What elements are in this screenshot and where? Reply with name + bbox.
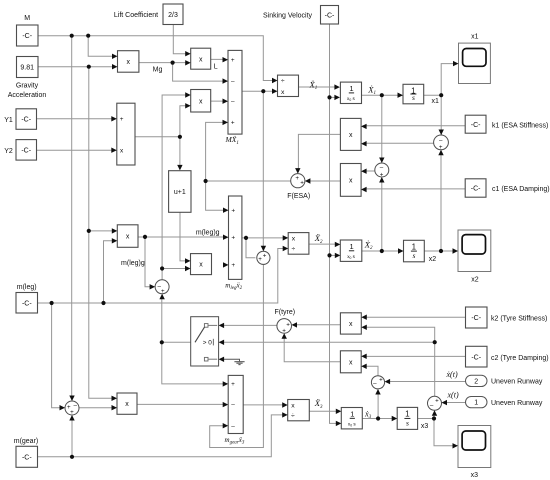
svg-text:F(tyre): F(tyre) <box>274 309 295 316</box>
svg-text:x: x <box>349 359 353 366</box>
svg-text:k1 (ESA Stiffness): k1 (ESA Stiffness) <box>492 122 548 129</box>
svg-text:-C-: -C- <box>471 186 481 193</box>
svg-text:s: s <box>412 251 415 260</box>
svg-text:x3: x3 <box>421 423 429 430</box>
svg-text:1: 1 <box>350 242 354 251</box>
svg-text:+: + <box>231 120 235 127</box>
svg-text:s: s <box>406 419 409 428</box>
svg-text:-C-: -C- <box>22 454 32 461</box>
svg-text:1: 1 <box>350 410 354 419</box>
svg-text:Y2: Y2 <box>4 148 13 155</box>
svg-text:–: – <box>373 380 377 387</box>
svg-text:–: – <box>430 403 434 410</box>
svg-text:-C-: -C- <box>471 354 481 361</box>
svg-text:-C-: -C- <box>21 147 31 154</box>
svg-text:Sinking Velocity: Sinking Velocity <box>263 12 313 19</box>
svg-text:x: x <box>292 235 296 242</box>
svg-text:9.81: 9.81 <box>20 65 34 72</box>
svg-text:-C-: -C- <box>22 33 32 40</box>
svg-text:+: + <box>300 180 304 187</box>
svg-text:m(gear): m(gear) <box>14 438 39 445</box>
svg-text:x: x <box>291 403 295 410</box>
svg-text:+: + <box>435 398 439 405</box>
svg-text:÷: ÷ <box>291 413 295 420</box>
svg-text:c1 (ESA Damping): c1 (ESA Damping) <box>492 186 550 193</box>
svg-text:1: 1 <box>405 410 410 419</box>
svg-text:+: + <box>120 116 124 123</box>
svg-text:k2 (Tyre Stiffness): k2 (Tyre Stiffness) <box>491 316 547 323</box>
svg-text:+: + <box>286 321 290 328</box>
svg-text:-C-: -C- <box>471 122 481 129</box>
svg-text:1: 1 <box>474 400 478 407</box>
svg-text:Y1: Y1 <box>4 117 13 124</box>
svg-text:–: – <box>231 78 235 85</box>
svg-text:M: M <box>24 15 30 22</box>
svg-text:x: x <box>349 132 353 139</box>
svg-text:x: x <box>125 401 129 408</box>
svg-text:Gravity: Gravity <box>16 83 39 90</box>
svg-text:F(ESA): F(ESA) <box>287 193 310 200</box>
svg-text:+: + <box>439 144 443 151</box>
svg-text:u+1: u+1 <box>174 189 186 196</box>
svg-text:+: + <box>231 234 235 241</box>
svg-text:2: 2 <box>474 378 478 385</box>
svg-text:m(leg)g: m(leg)g <box>121 260 145 267</box>
svg-text:1: 1 <box>349 84 353 93</box>
svg-text:x: x <box>281 89 285 96</box>
svg-text:÷: ÷ <box>281 78 285 85</box>
svg-text:Lift Coefficient: Lift Coefficient <box>114 12 158 19</box>
svg-text:+: + <box>231 381 235 388</box>
svg-text:+: + <box>295 175 299 182</box>
svg-text:> 0: > 0 <box>203 340 213 347</box>
svg-text:x: x <box>126 234 130 241</box>
svg-text:+: + <box>231 207 235 214</box>
svg-text:m(leg): m(leg) <box>17 284 37 291</box>
svg-text:-C-: -C- <box>21 117 31 124</box>
svg-text:+: + <box>258 256 262 263</box>
svg-text:-C-: -C- <box>325 12 335 19</box>
svg-text:-C-: -C- <box>471 315 481 322</box>
svg-text:+: + <box>231 262 235 269</box>
svg-text:x2: x2 <box>429 256 437 263</box>
svg-text:Acceleration: Acceleration <box>8 92 47 99</box>
svg-text:ẋ(t): ẋ(t) <box>446 370 458 379</box>
svg-text:–: – <box>231 98 235 105</box>
svg-text:+: + <box>379 377 383 384</box>
svg-text:+: + <box>161 288 165 295</box>
svg-text:x: x <box>126 59 130 66</box>
svg-text:+: + <box>231 57 235 64</box>
svg-text:Uneven Runway: Uneven Runway <box>491 400 543 407</box>
svg-text:x1: x1 <box>431 98 439 105</box>
svg-text:s: s <box>412 93 415 102</box>
svg-text:–: – <box>231 423 235 430</box>
svg-text:x2: x2 <box>471 277 479 284</box>
svg-text:c2 (Tyre Damping): c2 (Tyre Damping) <box>491 355 549 362</box>
svg-text:m(leg)g: m(leg)g <box>196 230 220 237</box>
svg-text:Mg: Mg <box>153 67 163 74</box>
svg-text:–: – <box>73 402 77 409</box>
svg-text:x: x <box>199 98 203 105</box>
svg-text:Uneven Runway: Uneven Runway <box>491 379 543 386</box>
svg-text:x: x <box>349 178 353 185</box>
svg-text:x: x <box>349 321 353 328</box>
svg-text:+: + <box>70 409 74 416</box>
svg-text:–: – <box>231 402 235 409</box>
svg-text:x: x <box>199 56 203 63</box>
svg-text:x(t): x(t) <box>447 391 459 400</box>
svg-text:x: x <box>199 262 203 269</box>
svg-text:L: L <box>214 63 218 70</box>
svg-text:+: + <box>263 252 267 259</box>
svg-text:x3: x3 <box>471 472 479 479</box>
svg-text:÷: ÷ <box>292 246 296 253</box>
svg-text:2/3: 2/3 <box>168 12 178 19</box>
svg-text:-C-: -C- <box>22 300 32 307</box>
svg-text:x1: x1 <box>471 34 479 41</box>
